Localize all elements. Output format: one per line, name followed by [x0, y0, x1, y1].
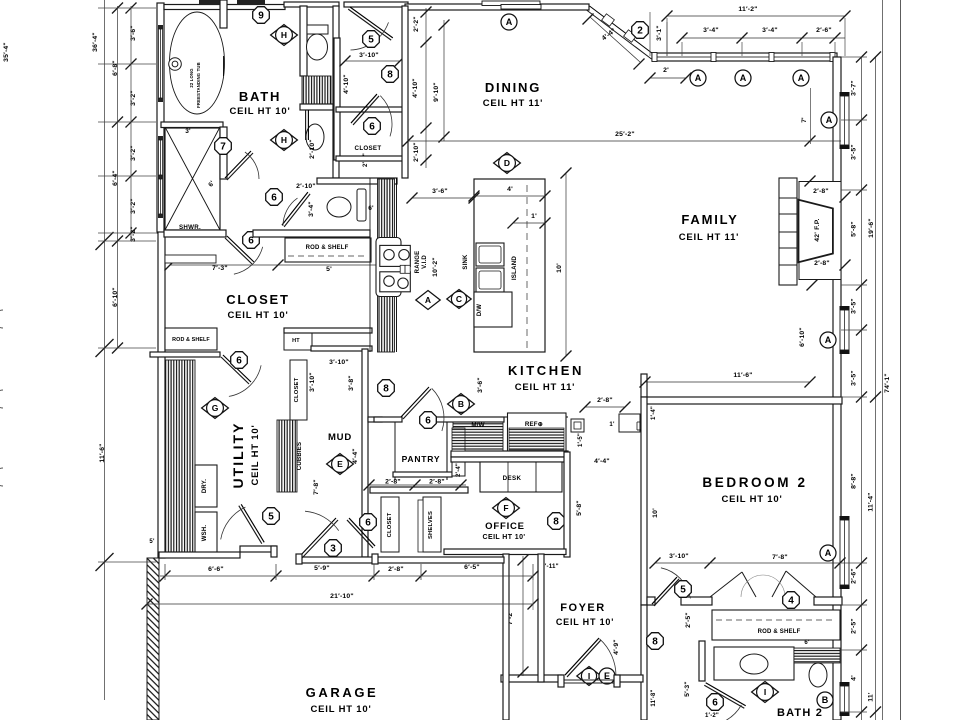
- svg-text:22 LONG: 22 LONG: [189, 68, 194, 87]
- dim 7-2 line: [522, 556, 524, 676]
- window diag marks: [602, 14, 615, 26]
- svg-text:8: 8: [553, 517, 559, 528]
- dimline top2: [682, 37, 845, 39]
- range controls: [400, 265, 410, 273]
- foyer door arc: [600, 639, 617, 676]
- svg-text:19′-6": 19′-6": [868, 218, 875, 238]
- svg-text:A: A: [695, 73, 702, 83]
- cut circle 1: [0, 310, 3, 328]
- svg-text:RANGE: RANGE: [415, 251, 421, 274]
- island dw: [474, 292, 512, 327]
- svg-text:8: 8: [383, 384, 389, 395]
- dimline dining v1: [425, 8, 427, 168]
- pantry walls: [394, 422, 396, 480]
- svg-text:10'-2": 10'-2": [432, 257, 439, 277]
- circle B bath2: [817, 692, 833, 708]
- svg-text:11′-6": 11′-6": [733, 372, 752, 379]
- rodshelf bed dash: [716, 619, 836, 621]
- svg-text:3′-10": 3′-10": [359, 52, 379, 59]
- svg-text:3′-6": 3′-6": [477, 377, 484, 393]
- island sink2: [476, 268, 504, 292]
- gar ext lines: [164, 564, 166, 580]
- wall exterior left (closet/utility): [158, 232, 165, 558]
- wall closet2 mid: [336, 107, 406, 112]
- wall wc2 right: [333, 110, 339, 178]
- wall top bath segment A: [199, 0, 222, 5]
- svg-text:DINING: DINING: [485, 80, 541, 95]
- svg-text:21′-10": 21′-10": [330, 593, 354, 600]
- shower X: [165, 127, 220, 230]
- svg-text:CLOSET: CLOSET: [355, 145, 382, 152]
- svg-text:SHELVES: SHELVES: [428, 511, 434, 539]
- svg-text:11': 11': [868, 692, 875, 702]
- shelves strip divider: [418, 500, 423, 552]
- hex 6 powder: [266, 189, 283, 206]
- window W left 2: [158, 136, 163, 140]
- diamond G: [202, 398, 229, 419]
- svg-text:9: 9: [258, 11, 264, 22]
- hex 6 closet-utility: [231, 352, 248, 369]
- dimline left B: [117, 6, 119, 348]
- svg-text:GARAGE: GARAGE: [306, 685, 379, 700]
- hex 8 foyer: [647, 633, 664, 650]
- wall dining left: [402, 6, 408, 178]
- svg-text:6′-5": 6′-5": [464, 564, 480, 571]
- svg-text:2′-6": 2′-6": [851, 568, 858, 584]
- svg-text:1′-5": 1′-5": [578, 433, 584, 447]
- svg-text:2′-8": 2′-8": [429, 479, 445, 486]
- circle A bed: [820, 545, 836, 561]
- pantry top walls: [374, 417, 402, 422]
- svg-text:F: F: [503, 503, 508, 513]
- island rect: [474, 179, 545, 352]
- svg-text:CEIL HT 10': CEIL HT 10': [556, 617, 614, 627]
- svg-text:3′-5": 3′-5": [851, 144, 858, 160]
- dimline diag: [590, 17, 640, 62]
- wall foyer west: [538, 554, 544, 682]
- range box top: [380, 245, 411, 266]
- svg-text:H: H: [281, 135, 287, 145]
- svg-text:8: 8: [387, 70, 393, 81]
- svg-text:REF⊕: REF⊕: [525, 421, 543, 428]
- svg-text:36′-4": 36′-4": [92, 32, 99, 52]
- powder door arc: [283, 198, 298, 226]
- garage top wall right: [299, 557, 504, 563]
- wall closet bottom left: [150, 352, 220, 357]
- dimline dining v2: [443, 20, 445, 141]
- svg-text:2′-2": 2′-2": [413, 16, 420, 32]
- foyer threshold: [562, 679, 616, 681]
- circle A fam win2: [820, 332, 836, 348]
- wall exterior right: [833, 57, 841, 720]
- wall shower right: [220, 127, 227, 179]
- hex 5 closet1: [363, 31, 380, 48]
- svg-text:E: E: [337, 459, 343, 469]
- svg-text:5: 5: [680, 585, 686, 596]
- circle A fam win1: [821, 112, 837, 128]
- svg-text:ROD & SHELF: ROD & SHELF: [306, 245, 349, 251]
- garage door3 arc: [305, 511, 339, 530]
- svg-text:H: H: [281, 30, 287, 40]
- diamond B pantry: [448, 394, 475, 415]
- svg-text:2′-8": 2′-8": [814, 260, 830, 267]
- circle E foyer: [599, 668, 615, 684]
- window mullion 2: [769, 53, 774, 62]
- closet2 door arc: [380, 96, 392, 137]
- hex 8 office: [548, 513, 565, 530]
- window E bed: [840, 516, 850, 520]
- svg-text:2′-5": 2′-5": [685, 612, 692, 628]
- svg-text:V.I.D: V.I.D: [422, 255, 428, 269]
- svg-text:4′-4": 4′-4": [352, 448, 359, 464]
- door shower leaf: [227, 153, 253, 180]
- svg-text:4: 4: [788, 596, 794, 607]
- kitchen south wall top: [443, 416, 568, 418]
- wall closet bottom mid2: [311, 346, 372, 351]
- bedroom2 top wall: [642, 397, 842, 404]
- hex 6 closet2: [364, 118, 381, 135]
- svg-text:D: D: [504, 158, 510, 168]
- bath2 door arc: [705, 705, 741, 720]
- window E fam1: [840, 92, 850, 96]
- bath2 vanity: [714, 647, 794, 680]
- hex 4 bed closet: [783, 592, 800, 609]
- wall closet top right: [253, 230, 370, 237]
- cubbies hatch: [277, 420, 297, 492]
- svg-text:3′-6": 3′-6": [130, 25, 137, 41]
- svg-text:3′-10": 3′-10": [329, 359, 349, 366]
- tub notch: [223, 56, 225, 76]
- svg-text:B: B: [458, 399, 464, 409]
- circle A top dining: [501, 14, 517, 30]
- bedroom2 bottom wall: [647, 597, 655, 605]
- powder cabinet: [357, 189, 366, 221]
- svg-text:OFFICE: OFFICE: [485, 521, 525, 532]
- svg-text:D/W: D/W: [477, 304, 483, 316]
- fireplace cavity: [799, 182, 841, 280]
- svg-text:G: G: [212, 403, 219, 413]
- svg-text:3′-2": 3′-2": [130, 145, 137, 161]
- door closet entry leaf: [225, 238, 252, 264]
- wall top wc: [284, 2, 339, 7]
- foyer bottom wall: [501, 675, 562, 682]
- diamond E: [327, 454, 354, 475]
- diamond I foyer: [577, 667, 601, 686]
- dimline 21-10: [147, 603, 533, 605]
- svg-text:42' F.P.: 42' F.P.: [814, 218, 821, 242]
- svg-text:11′-8": 11′-8": [651, 689, 657, 706]
- dimline 11-2: [667, 15, 845, 17]
- svg-text:3′-2": 3′-2": [130, 90, 137, 106]
- cut circle 2: [0, 390, 3, 408]
- svg-text:2′-10": 2′-10": [296, 183, 316, 190]
- svg-text:2': 2': [663, 67, 669, 74]
- wall bath/wc vertical: [300, 6, 307, 76]
- svg-text:11′-2": 11′-2": [738, 6, 757, 13]
- svg-text:6′-6": 6′-6": [208, 566, 224, 573]
- svg-text:KITCHEN: KITCHEN: [508, 363, 584, 378]
- tub faucet circle: [169, 58, 182, 71]
- tub: [170, 12, 225, 114]
- hex 6 closet south: [360, 514, 377, 531]
- svg-text:3′-4": 3′-4": [762, 27, 778, 34]
- linen shelves: [302, 76, 331, 104]
- closet1 door leaf: [348, 9, 391, 40]
- window E bath2: [840, 682, 850, 686]
- circle A w1: [690, 70, 706, 86]
- svg-text:HT: HT: [292, 338, 300, 344]
- svg-text:11′-6": 11′-6": [99, 443, 106, 462]
- door closet-utility leaf: [221, 357, 249, 384]
- svg-text:2′-8": 2′-8": [813, 188, 829, 195]
- closet1 door arc: [351, 22, 389, 50]
- svg-text:25′-2": 25′-2": [615, 131, 635, 138]
- svg-text:3′-2": 3′-2": [130, 226, 137, 242]
- svg-text:UTILITY: UTILITY: [230, 422, 246, 489]
- svg-text:3′-7": 3′-7": [851, 80, 858, 96]
- dimline 25-2: [408, 140, 841, 142]
- svg-text:2′-4": 2′-4": [456, 463, 462, 477]
- svg-text:6: 6: [712, 698, 718, 709]
- garage door3 leaf: [302, 520, 338, 558]
- wc toilet: [307, 25, 328, 34]
- wall bath2/foyer: [641, 605, 647, 720]
- svg-text:2′-8": 2′-8": [597, 397, 613, 404]
- bath2 sink: [740, 654, 768, 674]
- bath2 toilet: [809, 663, 827, 687]
- svg-text:CEIL HT 11': CEIL HT 11': [679, 232, 740, 243]
- office appliance box: [571, 419, 584, 432]
- svg-text:CEIL HT 10': CEIL HT 10': [310, 704, 371, 715]
- wall top dining: [405, 4, 589, 10]
- pantry bottom wall 2: [370, 487, 468, 493]
- svg-text:BEDROOM 2: BEDROOM 2: [702, 475, 807, 490]
- svg-text:6: 6: [369, 122, 375, 133]
- dimline right B: [875, 57, 877, 720]
- svg-text:CUBBIES: CUBBIES: [297, 442, 303, 470]
- rodshelf top box: [285, 238, 371, 262]
- dimline 1ft: [513, 222, 545, 224]
- wall bath/closet divider: [164, 230, 226, 237]
- svg-text:8′-8": 8′-8": [851, 473, 858, 489]
- svg-text:ROD & SHELF: ROD & SHELF: [172, 337, 210, 343]
- svg-text:4': 4': [507, 186, 513, 193]
- closet strip mid: [290, 360, 307, 420]
- wall top family window band: [652, 53, 837, 61]
- svg-text:CEIL HT 10': CEIL HT 10': [227, 310, 288, 321]
- svg-text:BATH 2: BATH 2: [777, 707, 823, 719]
- svg-text:6': 6': [368, 205, 374, 212]
- svg-text:A: A: [425, 295, 431, 305]
- dimline 2-8ks: [585, 406, 625, 408]
- pantry door arc: [432, 388, 444, 431]
- svg-text:5′-8": 5′-8": [851, 221, 858, 237]
- svg-text:3′-8": 3′-8": [348, 375, 355, 391]
- ref box: [508, 413, 567, 452]
- door closet-utility arc: [229, 365, 261, 396]
- svg-text:DRY.: DRY.: [202, 479, 208, 493]
- svg-text:8: 8: [652, 637, 658, 648]
- bath2 door leaf: [704, 685, 744, 708]
- svg-text:3′-4": 3′-4": [703, 27, 719, 34]
- svg-text:5': 5': [149, 539, 155, 545]
- wall bath2 vanity side: [699, 641, 705, 681]
- dryer box: [195, 465, 217, 507]
- wall diagonal dining-family: [586, 10, 651, 59]
- dimline 3-6k: [412, 197, 474, 199]
- svg-text:1': 1': [531, 213, 537, 220]
- hex 8 hall: [382, 66, 399, 83]
- wall closet2 bottom: [336, 156, 406, 161]
- svg-text:CEIL HT 10': CEIL HT 10': [721, 494, 782, 505]
- svg-text:7: 7: [220, 142, 226, 153]
- dimline right: [861, 57, 863, 720]
- right ticks: [856, 52, 867, 63]
- svg-text:3: 3: [330, 544, 336, 555]
- svg-text:5′-8": 5′-8": [576, 500, 583, 516]
- diamond D: [494, 153, 521, 174]
- dimline left A: [104, 0, 106, 700]
- dimline 4ft: [474, 195, 545, 197]
- svg-text:2′-8": 2′-8": [388, 566, 404, 573]
- bedroom2 jog notch: [637, 421, 641, 423]
- window dining top: [482, 1, 540, 6]
- svg-text:5: 5: [368, 35, 374, 46]
- svg-text:3′-2": 3′-2": [130, 198, 137, 214]
- wall top bath segment B: [237, 0, 265, 5]
- wall office bottom: [444, 549, 566, 555]
- fp tick bot: [807, 280, 818, 291]
- diamond H upper: [271, 25, 298, 46]
- wall garage east: [503, 554, 509, 720]
- bed2 door leaf: [654, 579, 679, 606]
- wall shower top: [161, 122, 223, 128]
- desk: [480, 462, 562, 492]
- shelves strip: [423, 497, 441, 552]
- diamond I bath2: [752, 682, 779, 703]
- circle A w3: [793, 70, 809, 86]
- svg-text:2′-8": 2′-8": [385, 479, 401, 486]
- svg-text:4′-4": 4′-4": [594, 458, 610, 465]
- wall exterior left (bath): [157, 3, 164, 233]
- wall closet bottom mid: [284, 328, 372, 333]
- diamond H lower: [271, 130, 298, 151]
- powder sink: [327, 197, 351, 217]
- svg-text:74′-1": 74′-1": [884, 373, 891, 393]
- ext line 3-1: [649, 12, 651, 56]
- svg-text:7′-3": 7′-3": [212, 265, 228, 272]
- window W left 1: [158, 25, 163, 29]
- svg-text:3′-6": 3′-6": [432, 188, 448, 195]
- svg-text:1': 1': [609, 422, 615, 428]
- svg-text:10': 10': [556, 263, 563, 273]
- circle A w2: [735, 70, 751, 86]
- svg-text:11′-4": 11′-4": [868, 492, 875, 511]
- fireplace hearth cols: [779, 178, 797, 285]
- dimline closet1: [345, 60, 400, 62]
- range outer: [376, 238, 401, 297]
- range burners: [384, 250, 394, 260]
- rodshelf top dash: [288, 255, 368, 257]
- svg-text:4′-10": 4′-10": [412, 78, 419, 98]
- svg-text:6': 6': [804, 640, 810, 646]
- svg-text:5′-3": 5′-3": [684, 681, 691, 697]
- door bath entry leaf: [305, 110, 307, 140]
- svg-text:CLOSET: CLOSET: [226, 292, 290, 307]
- svg-text:4′-10": 4′-10": [343, 74, 350, 94]
- svg-text:A: A: [825, 548, 832, 558]
- office right wall: [564, 452, 570, 557]
- utility door leaf: [239, 506, 262, 544]
- hex 6 pantry: [420, 412, 437, 429]
- svg-text:3′-10": 3′-10": [669, 553, 689, 560]
- svg-text:CEIL HT 10': CEIL HT 10': [483, 534, 526, 541]
- svg-text:6′-4": 6′-4": [112, 170, 119, 186]
- bed2 jog box: [619, 414, 640, 432]
- dimline left C: [130, 6, 132, 241]
- svg-text:9′-10": 9′-10": [433, 82, 440, 102]
- svg-text:3′-10": 3′-10": [309, 372, 316, 392]
- svg-text:3′-5": 3′-5": [851, 370, 858, 386]
- svg-text:CEIL HT 11': CEIL HT 11': [515, 382, 576, 393]
- svg-text:M/W: M/W: [471, 422, 484, 429]
- wall wc right: [333, 6, 339, 110]
- svg-text:7': 7': [801, 117, 808, 123]
- garage top wall left: [159, 552, 240, 558]
- mw counter: [453, 419, 503, 451]
- svg-text:CEIL HT 10': CEIL HT 10': [250, 424, 261, 485]
- svg-text:6: 6: [236, 356, 242, 367]
- svg-text:CLOSET: CLOSET: [387, 512, 393, 537]
- dimline 11-6: [645, 381, 810, 383]
- svg-text:3′-4": 3′-4": [308, 201, 315, 217]
- ref hatch: [509, 428, 564, 450]
- cut circle 3: [0, 468, 3, 486]
- svg-text:6: 6: [365, 518, 371, 529]
- fireplace box: [799, 200, 833, 263]
- svg-text:A: A: [825, 335, 832, 345]
- window E fam2: [840, 306, 850, 310]
- svg-text:B: B: [822, 695, 829, 705]
- range box bottom: [380, 272, 411, 292]
- dimline 2ft: [650, 77, 686, 79]
- svg-text:DESK: DESK: [503, 475, 522, 482]
- wall top closet: [344, 2, 408, 7]
- diamond A kitchen: [416, 291, 440, 310]
- svg-text:MUD: MUD: [328, 432, 352, 443]
- svg-text:ROD & SHELF: ROD & SHELF: [758, 629, 801, 635]
- svg-text:6′-10": 6′-10": [799, 327, 806, 347]
- svg-text:A: A: [798, 73, 805, 83]
- svg-text:6: 6: [271, 193, 277, 204]
- page border right: [900, 0, 902, 720]
- shower box: [165, 128, 220, 230]
- svg-text:BATH: BATH: [239, 89, 281, 104]
- window mullion 1: [711, 53, 716, 62]
- wall hallcloset left: [334, 38, 340, 160]
- garage top wall mid: [240, 546, 276, 552]
- svg-text:5': 5': [326, 266, 332, 273]
- svg-text:3': 3': [185, 128, 191, 135]
- door closet arc: [234, 247, 263, 274]
- kitchen south wall bot: [451, 451, 568, 457]
- closet strip south: [381, 497, 399, 552]
- kitchen counter west back: [369, 178, 371, 352]
- svg-text:6′-10": 6′-10": [112, 287, 119, 307]
- garage door jambs: [271, 546, 277, 557]
- dimline right C: [882, 0, 884, 720]
- svg-text:3′-5": 3′-5": [851, 298, 858, 314]
